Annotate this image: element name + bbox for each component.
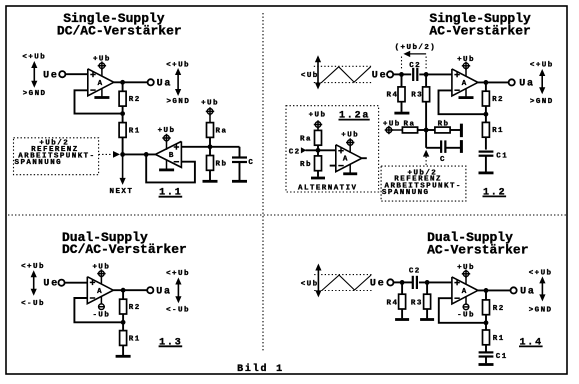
svg-text:<+Ub: <+Ub: [166, 270, 190, 278]
svg-text:Ua: Ua: [157, 78, 173, 89]
svg-text:C: C: [248, 159, 254, 167]
svg-text:R4: R4: [387, 92, 399, 100]
svg-text:R1: R1: [493, 335, 505, 343]
svg-text:Rb: Rb: [300, 161, 312, 169]
svg-text:C2: C2: [409, 62, 421, 70]
svg-text:Ue: Ue: [43, 279, 59, 290]
svg-text:C2: C2: [289, 148, 301, 156]
svg-text:A: A: [462, 288, 468, 296]
svg-text:Ue: Ue: [370, 278, 386, 289]
svg-text:+Ub: +Ub: [457, 56, 475, 64]
svg-text:+Ub: +Ub: [383, 121, 401, 129]
svg-text:R4: R4: [387, 300, 399, 308]
svg-text:A: A: [97, 288, 103, 296]
svg-text:+Ub: +Ub: [309, 112, 327, 120]
svg-text:C1: C1: [496, 152, 508, 160]
svg-text:(+Ub/2): (+Ub/2): [395, 44, 437, 52]
svg-text:Ra: Ra: [300, 136, 312, 144]
svg-text:AC-Verstärker: AC-Verstärker: [427, 242, 528, 257]
svg-text:+Ub: +Ub: [457, 264, 475, 272]
svg-text:-Ub: -Ub: [92, 312, 110, 320]
svg-text:Ra: Ra: [216, 128, 228, 136]
svg-text:R1: R1: [492, 127, 504, 135]
svg-text:R1: R1: [129, 127, 141, 135]
svg-text:R1: R1: [129, 335, 141, 343]
svg-text:Bild 1: Bild 1: [237, 363, 284, 375]
svg-text:DC/AC-Verstärker: DC/AC-Verstärker: [57, 24, 182, 39]
svg-text:R2: R2: [493, 305, 505, 313]
svg-text:<+Ub: <+Ub: [529, 270, 553, 278]
svg-text:+Ub: +Ub: [93, 56, 111, 64]
svg-text:R3: R3: [411, 92, 423, 100]
svg-text:A: A: [98, 80, 104, 88]
svg-text:Ua: Ua: [520, 287, 536, 298]
svg-text:A: A: [462, 80, 468, 88]
svg-text:C2: C2: [409, 268, 421, 276]
svg-text:-Ub: -Ub: [457, 312, 475, 320]
svg-text:<-Ub: <-Ub: [21, 300, 45, 308]
svg-text:>GND: >GND: [166, 98, 190, 106]
svg-text:>GND: >GND: [529, 306, 553, 314]
svg-text:Ue: Ue: [43, 70, 59, 81]
svg-text:SPANNUNG: SPANNUNG: [15, 159, 63, 167]
svg-text:<+Ub: <+Ub: [21, 263, 45, 271]
svg-text:R2: R2: [492, 96, 504, 104]
svg-text:+Ub: +Ub: [201, 100, 219, 108]
svg-text:Ue: Ue: [372, 70, 388, 81]
svg-text:SPANNUNG: SPANNUNG: [382, 189, 430, 197]
svg-text:R2: R2: [129, 304, 141, 312]
svg-text:B: B: [169, 152, 175, 160]
svg-text:<-Ub: <-Ub: [166, 307, 190, 315]
svg-text:<+Ub: <+Ub: [22, 54, 46, 62]
svg-text:<Ub: <Ub: [301, 280, 319, 288]
svg-text:AC-Verstärker: AC-Verstärker: [429, 24, 530, 39]
svg-text:Ua: Ua: [156, 286, 172, 297]
svg-text:C: C: [440, 156, 446, 164]
svg-text:>GND: >GND: [23, 90, 47, 98]
svg-text:Ua: Ua: [519, 78, 535, 89]
svg-text:C1: C1: [496, 353, 508, 361]
svg-text:R2: R2: [129, 96, 141, 104]
svg-text:ALTERNATIV: ALTERNATIV: [298, 184, 358, 192]
svg-text:DC/AC-Verstärker: DC/AC-Verstärker: [62, 242, 187, 257]
svg-text:NEXT: NEXT: [110, 188, 134, 196]
svg-text:<Ub: <Ub: [301, 72, 319, 80]
svg-text:R3: R3: [411, 300, 423, 308]
svg-text:<+Ub: <+Ub: [530, 62, 554, 70]
svg-text:Rb: Rb: [216, 161, 228, 169]
svg-text:>GND: >GND: [530, 98, 554, 106]
svg-text:+Ub: +Ub: [92, 264, 110, 272]
svg-text:A: A: [343, 156, 349, 164]
